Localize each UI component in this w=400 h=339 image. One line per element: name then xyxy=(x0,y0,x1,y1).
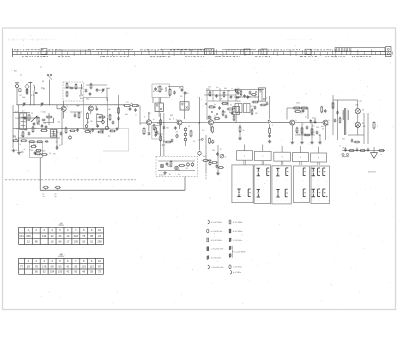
capacitor C41 xyxy=(28,132,31,136)
resistor R17 xyxy=(41,154,48,156)
resistor R8 xyxy=(118,107,120,114)
switch link 2 xyxy=(262,161,263,165)
wire mid2 xyxy=(19,137,61,139)
junction j2 xyxy=(18,128,62,181)
svg-text:1n: 1n xyxy=(131,103,133,105)
svg-text:8k2: 8k2 xyxy=(167,166,170,168)
capacitor C15 xyxy=(134,108,137,112)
svg-text:le: le xyxy=(153,119,154,121)
wave switch contact xyxy=(47,74,52,105)
contact K3d xyxy=(285,189,288,202)
rectifier D4 xyxy=(175,166,179,170)
capacitor C28 xyxy=(302,109,305,113)
resistor R22 xyxy=(160,135,162,142)
dial strip rails xyxy=(13,49,392,58)
table AB xyxy=(19,252,104,274)
labels mid xyxy=(148,113,202,147)
resistor R11 xyxy=(40,129,47,131)
wire det h3 xyxy=(208,100,238,102)
legend L1 xyxy=(208,220,222,224)
capacitor C45 xyxy=(112,121,115,125)
wire sw feed 3 xyxy=(281,146,283,152)
svg-text:1n: 1n xyxy=(44,123,46,125)
wire top feed xyxy=(168,87,183,89)
ground G3 xyxy=(268,140,272,143)
terminal small xyxy=(235,89,238,92)
svg-text:1n: 1n xyxy=(254,96,256,98)
svg-text:c 00-000 kHz: c 00-000 kHz xyxy=(211,267,224,269)
capacitor C18 xyxy=(173,91,176,95)
legend L4 xyxy=(207,247,224,251)
capacitor C7b xyxy=(96,124,99,128)
labels lamps xyxy=(362,110,365,126)
capacitor C12 xyxy=(45,140,49,143)
svg-text:134: 134 xyxy=(42,234,47,238)
switch bank box 5 xyxy=(311,166,330,204)
legend R6 xyxy=(230,271,241,275)
labels tone xyxy=(203,149,221,159)
svg-text:d 0-00 MHz: d 0-00 MHz xyxy=(211,222,222,224)
capacitor C25 xyxy=(243,94,246,98)
svg-text:·: · xyxy=(21,229,22,232)
resistor R42 xyxy=(178,165,185,167)
dial strip pulley box 1 xyxy=(41,49,47,55)
svg-text:214: 214 xyxy=(19,234,24,238)
wire rd h1 xyxy=(234,88,264,90)
diode D1 xyxy=(25,84,29,96)
elco chain E2 xyxy=(184,127,187,146)
resistor R51 xyxy=(22,131,24,138)
resistor R39 xyxy=(332,102,334,109)
svg-text:220: 220 xyxy=(316,127,319,129)
out extras xyxy=(334,117,361,143)
resistor R26 xyxy=(223,91,225,97)
wire osc drop xyxy=(106,88,108,101)
label T3 xyxy=(144,116,145,119)
wire det v5 xyxy=(235,88,237,101)
wire det h1 xyxy=(206,90,240,92)
svg-text:1n: 1n xyxy=(312,125,314,127)
oscillator coil L2 xyxy=(80,84,83,95)
svg-text:5: 5 xyxy=(272,125,273,127)
resistor R23 xyxy=(169,88,171,96)
capacitor C16 xyxy=(148,132,151,136)
junction dots bus xyxy=(17,103,92,106)
legend R3 xyxy=(229,238,242,242)
output transformer TR1 xyxy=(343,108,349,135)
wire agc line xyxy=(13,127,110,129)
svg-text:tI· .tlllIl· I·l ··I—l—·.·—tl: tI· .tlllIl· I·l ··I—l—·.·—tllt···l·tll·… xyxy=(8,39,55,42)
labels det cluster xyxy=(208,87,242,118)
capacitor C7a xyxy=(89,92,92,96)
contact K4b xyxy=(302,189,306,202)
labels af xyxy=(296,103,319,130)
svg-text:8.2: 8.2 xyxy=(59,145,62,147)
resistor R32 xyxy=(269,127,271,134)
IF transformer S4 xyxy=(180,102,189,110)
svg-text:159: 159 xyxy=(74,240,79,244)
svg-text:0.1: 0.1 xyxy=(202,130,205,132)
svg-text:56: 56 xyxy=(178,170,180,172)
svg-text:218: 218 xyxy=(74,234,79,238)
wire mid1 xyxy=(13,113,40,119)
svg-text:4.7: 4.7 xyxy=(22,111,25,113)
svg-text:1k: 1k xyxy=(243,130,245,132)
IF transformer S3 xyxy=(155,103,163,112)
svg-text:5o: 5o xyxy=(43,196,45,198)
lamp LP1 xyxy=(355,100,360,122)
capacitor C50 xyxy=(216,152,219,156)
capacitor C30 xyxy=(314,120,317,124)
scan noise xyxy=(8,33,393,306)
dial strip lower text row xyxy=(22,55,371,58)
wire out v3 xyxy=(363,113,365,144)
resistor R30 xyxy=(212,126,214,133)
legend R4 brace xyxy=(229,246,245,258)
capacitor C21 xyxy=(174,126,177,130)
resistor R21 xyxy=(160,119,162,126)
oscillator section box xyxy=(63,82,84,101)
label T2 xyxy=(95,106,97,108)
resistor R12 xyxy=(12,140,19,142)
svg-text:130: 130 xyxy=(58,270,63,274)
transistor T1 xyxy=(61,101,66,119)
svg-text:39: 39 xyxy=(186,168,188,170)
dial strip pulley box 3 xyxy=(244,49,250,55)
wire bus2 xyxy=(151,122,208,123)
diode box xyxy=(97,115,104,122)
resistor R15 xyxy=(36,141,43,143)
svg-text:1n: 1n xyxy=(49,153,51,155)
resistor R55 xyxy=(109,114,111,121)
wire osc internal xyxy=(65,85,108,88)
contact K4a xyxy=(302,168,306,182)
elco E4 xyxy=(187,162,194,167)
resistor R31 xyxy=(252,101,259,103)
resistor R41 xyxy=(170,160,172,167)
wire det v1 xyxy=(206,88,208,120)
elco E6 xyxy=(85,124,88,129)
resistor R50 xyxy=(32,126,34,133)
capacitor C7 xyxy=(96,107,99,111)
contact K1b xyxy=(248,189,251,202)
resistor R33 xyxy=(293,107,301,109)
rectifier D3 xyxy=(160,164,164,168)
svg-text:1n: 1n xyxy=(302,111,304,113)
resistor R25 xyxy=(209,91,211,97)
wire s3 leads xyxy=(158,98,160,118)
svg-text:10k: 10k xyxy=(212,150,215,152)
wire x40 drop xyxy=(39,158,41,191)
svg-text:1n: 1n xyxy=(237,88,239,90)
capacitor C4 xyxy=(85,89,88,93)
label T7 xyxy=(329,119,330,122)
resistor R34 xyxy=(300,107,308,109)
ps labels xyxy=(159,174,165,176)
wire T1 base xyxy=(57,105,61,109)
contact K2a xyxy=(257,168,260,181)
switch button 1 xyxy=(237,151,253,161)
wire agc faint return xyxy=(103,128,129,151)
contact K5row1 text xyxy=(313,180,326,182)
svg-text:E 00 MHz: E 00 MHz xyxy=(233,222,242,224)
transistor T3 xyxy=(146,112,151,131)
bottom parts row xyxy=(344,148,385,152)
switch bank box 2 xyxy=(254,165,271,204)
labels mid2 xyxy=(188,126,205,143)
wire mains riser xyxy=(184,177,186,191)
ferrite antenna xyxy=(28,82,32,105)
wire det v4 xyxy=(227,91,229,107)
labels osc box xyxy=(68,87,110,101)
svg-text:lg: lg xyxy=(220,149,221,151)
svg-text:47: 47 xyxy=(230,105,232,107)
wire left rail 2 xyxy=(18,105,20,151)
svg-text:1n: 1n xyxy=(109,115,111,117)
legend L2 xyxy=(207,229,223,233)
dial strip ticks xyxy=(17,49,392,56)
wire out v4 xyxy=(367,113,369,144)
svg-text:1n: 1n xyxy=(216,87,218,89)
svg-text:25: 25 xyxy=(188,126,190,128)
mixer shield box xyxy=(84,98,108,130)
switch link 5 xyxy=(318,162,319,165)
labels cluster A2 xyxy=(19,81,46,99)
capacitor C23 xyxy=(230,95,233,99)
capacitor C31 xyxy=(324,109,327,113)
elco E5 xyxy=(102,120,105,125)
svg-text:1n: 1n xyxy=(236,96,238,98)
tone parts 2 xyxy=(216,164,225,168)
wire x140 xyxy=(140,106,146,126)
capacitor C2 xyxy=(35,93,38,94)
wire out h4 xyxy=(348,134,364,136)
labels rd cluster xyxy=(236,88,263,115)
legend R5 xyxy=(229,265,242,269)
IF can S7 xyxy=(235,104,242,113)
ground G2 xyxy=(17,151,21,154)
wire mains bus xyxy=(40,189,185,191)
svg-text:4.7: 4.7 xyxy=(305,117,307,119)
svg-text:196: 196 xyxy=(26,234,31,238)
resistor R19 xyxy=(131,104,139,106)
switch bank box 4 xyxy=(294,166,310,203)
labels mid top xyxy=(153,86,190,98)
capacitor C14 xyxy=(129,107,132,111)
svg-text:1n: 1n xyxy=(178,174,180,176)
contact K5f xyxy=(323,189,328,197)
resistor R10 xyxy=(37,116,39,124)
wire out v2 xyxy=(337,100,339,140)
fuse labels xyxy=(43,194,57,199)
legend L3 xyxy=(207,238,222,242)
label T6 xyxy=(296,119,297,122)
transistor T4 xyxy=(177,120,182,129)
resistor R37 xyxy=(311,128,313,135)
IF transformer S5 xyxy=(233,106,239,114)
wire drop2 xyxy=(311,123,313,140)
resistor R4 xyxy=(75,83,77,89)
contact K5e xyxy=(318,189,321,197)
resistor R20 xyxy=(143,127,145,135)
contact K3c xyxy=(276,189,279,202)
wire out top xyxy=(333,99,358,101)
labels mid1 xyxy=(126,102,154,136)
svg-text:b 0-00 kHz: b 0-00 kHz xyxy=(211,258,221,260)
wire main bus xyxy=(17,104,124,106)
contact K1a xyxy=(237,189,240,202)
svg-text:a 0-000 kHz: a 0-000 kHz xyxy=(211,231,223,233)
ground G5 xyxy=(300,141,304,144)
resistor R40 xyxy=(373,121,378,129)
resistor R3 xyxy=(66,91,68,97)
capacitor C40 xyxy=(24,116,27,120)
ground G4 xyxy=(291,141,295,144)
labels ant top xyxy=(14,67,42,77)
wire g7 xyxy=(319,134,321,141)
dial strip pulley box 5 xyxy=(305,49,311,54)
svg-text:176: 176 xyxy=(42,264,47,268)
svg-text:1k: 1k xyxy=(193,141,195,143)
capacitor C43 xyxy=(60,132,63,136)
switch link 1 xyxy=(244,160,245,165)
svg-text:100k: 100k xyxy=(296,103,300,105)
contact K2b xyxy=(266,168,269,182)
transistor T2a cluster xyxy=(100,118,113,137)
pot P2 xyxy=(220,154,226,158)
capacitor C24 xyxy=(218,106,221,110)
wire x62 xyxy=(61,112,63,146)
elco E7 xyxy=(212,140,214,144)
det extras xyxy=(205,96,239,121)
svg-text:AB: AB xyxy=(59,252,63,256)
resistor R1 xyxy=(26,88,28,94)
legend L6 xyxy=(208,265,224,269)
svg-text:56: 56 xyxy=(169,174,171,176)
wire ex1 xyxy=(43,113,53,125)
capacitor C13 xyxy=(56,146,59,150)
fuse F2 xyxy=(55,186,62,190)
terminal ring xyxy=(201,138,203,140)
svg-text:4n7: 4n7 xyxy=(203,156,206,158)
contact K3a xyxy=(276,168,279,181)
tuning capacitor CT1 xyxy=(23,102,26,106)
svg-text:6o: 6o xyxy=(55,196,57,198)
capacitor C26 xyxy=(247,95,250,99)
coil L1 xyxy=(33,85,36,105)
tone parts row xyxy=(202,159,217,166)
resistor R24 xyxy=(190,130,192,137)
svg-text:1n: 1n xyxy=(300,112,302,114)
labels gap xyxy=(125,103,140,117)
resistor R27 xyxy=(221,103,228,105)
labels cluster B xyxy=(87,109,111,132)
mains dashed line xyxy=(5,179,136,181)
capacitor C17 xyxy=(163,126,166,130)
IF can S8 xyxy=(244,104,251,113)
resistor R13 xyxy=(20,140,27,142)
capacitor C11 xyxy=(45,125,48,129)
switch link 3 xyxy=(281,161,282,165)
wire out bottom xyxy=(342,150,385,152)
wire drop1 xyxy=(301,123,303,140)
contact K3b xyxy=(285,168,288,182)
capacitor C19 xyxy=(181,88,184,92)
svg-text:68: 68 xyxy=(143,134,145,136)
contact K5a xyxy=(312,168,315,176)
labels left cluster xyxy=(15,111,62,148)
coil L5 xyxy=(52,118,55,123)
label T5 xyxy=(215,119,216,122)
svg-text:M4: M4 xyxy=(14,71,17,73)
contact K5d xyxy=(312,189,315,197)
resistor R60 xyxy=(209,137,211,144)
volume pot P1 xyxy=(31,116,37,122)
contact K2c xyxy=(257,189,260,202)
dial strip pulley box 2 xyxy=(205,49,215,55)
labels cluster A xyxy=(13,111,61,156)
wire box drop xyxy=(153,98,161,104)
wire sw feed 2 xyxy=(262,145,264,152)
capacitor C27 xyxy=(268,134,271,138)
label T1 xyxy=(67,105,68,108)
wire out v1 xyxy=(332,95,334,135)
svg-text:5k: 5k xyxy=(225,157,227,159)
resistor R52 xyxy=(46,116,53,118)
resistor R2 xyxy=(66,82,68,88)
capacitor C3 xyxy=(70,87,74,90)
resistor R53 xyxy=(65,127,67,134)
resistor R14 xyxy=(28,141,35,143)
svg-text:E 00 MHz: E 00 MHz xyxy=(233,231,242,233)
resistor R57 xyxy=(109,130,116,132)
svg-text:a2: a2 xyxy=(20,75,22,77)
faint header text xyxy=(8,38,312,41)
af extras xyxy=(295,126,318,136)
ratio det transformer S6 xyxy=(258,88,265,101)
wire ex2 xyxy=(70,112,82,114)
resistor R38 xyxy=(321,106,323,113)
wire fb loop xyxy=(287,108,308,120)
dial drive drum xyxy=(335,47,391,57)
capacitor C10 xyxy=(41,124,44,128)
wire sw feed 4 xyxy=(300,146,302,153)
IF can S1 xyxy=(20,113,27,130)
labels psu xyxy=(167,166,187,176)
svg-text:u1: u1 xyxy=(40,67,42,69)
table LA xyxy=(19,221,104,244)
capacitor C9 xyxy=(33,122,36,126)
svg-text:10k: 10k xyxy=(208,87,211,89)
legend R1 xyxy=(229,220,242,224)
svg-text:d 0-00 MHz: d 0-00 MHz xyxy=(211,240,222,242)
power supply box xyxy=(156,156,198,176)
svg-text:22: 22 xyxy=(31,113,33,115)
contact K5b xyxy=(318,168,321,176)
mid extras xyxy=(153,124,178,143)
svg-text:b 2x0.5: b 2x0.5 xyxy=(159,174,165,176)
ground G6 xyxy=(310,141,314,144)
IF can S2 xyxy=(51,130,57,138)
switch button 3 xyxy=(274,152,291,161)
dial strip pulley box 4 xyxy=(261,49,267,55)
capacitor C22 xyxy=(215,94,218,98)
svg-text:––: –– xyxy=(266,180,268,182)
wire if drop xyxy=(118,95,120,128)
wire jump xyxy=(77,105,80,106)
svg-text:c 00-000 kHz: c 00-000 kHz xyxy=(211,249,224,251)
agc rail parts xyxy=(69,128,103,134)
